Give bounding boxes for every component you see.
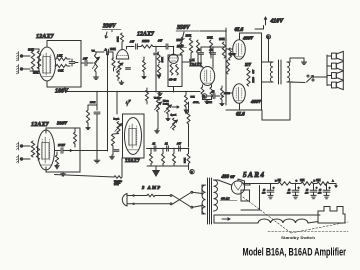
svg-text:450: 450: [305, 193, 309, 195]
svg-text:Speed: Speed: [171, 115, 177, 117]
svg-text:Vol.: Vol.: [92, 50, 96, 53]
svg-text:32V: 32V: [245, 63, 252, 67]
svg-text:6.8K: 6.8K: [58, 70, 63, 73]
svg-text:460V: 460V: [250, 99, 262, 104]
svg-text:56K: 56K: [191, 96, 195, 99]
svg-text:1MEG: 1MEG: [142, 40, 149, 43]
svg-text:100K: 100K: [186, 35, 192, 38]
svg-text:F: F: [128, 99, 132, 103]
svg-text:.5K: .5K: [277, 179, 281, 182]
svg-text:460V: 460V: [242, 36, 254, 41]
svg-text:12AX7: 12AX7: [31, 121, 49, 128]
svg-text:Foot: Foot: [163, 101, 168, 103]
svg-text:400 or: 400 or: [221, 175, 235, 180]
svg-text:1.5K: 1.5K: [57, 55, 62, 58]
svg-text:40: 40: [306, 190, 309, 192]
svg-text:100K: 100K: [207, 37, 213, 40]
svg-text:+: +: [273, 187, 275, 190]
svg-text:40: 40: [263, 190, 266, 192]
svg-text:.01: .01: [165, 143, 169, 146]
svg-text:450: 450: [287, 193, 291, 195]
svg-text:Pedal: Pedal: [163, 104, 169, 106]
svg-text:Model B16A, B16AD Amplifier: Model B16A, B16AD Amplifier: [243, 247, 347, 259]
svg-text:12AX7: 12AX7: [36, 33, 54, 40]
svg-text:10K: 10K: [316, 179, 321, 182]
svg-text:40: 40: [319, 190, 322, 192]
svg-text:450: 450: [262, 193, 266, 195]
svg-text:6L6: 6L6: [235, 27, 244, 33]
svg-text:330V: 330V: [102, 24, 117, 30]
svg-text:100K: 100K: [161, 57, 164, 63]
svg-text:40: 40: [288, 190, 291, 192]
svg-text:450: 450: [318, 193, 322, 195]
svg-text:B: B: [191, 170, 193, 174]
svg-text:OHM: OHM: [252, 77, 255, 83]
svg-text:.02: .02: [197, 49, 201, 52]
svg-text:+: +: [298, 187, 300, 190]
svg-text:.01: .01: [152, 143, 156, 146]
svg-text:Standby Switch: Standby Switch: [281, 236, 315, 240]
svg-text:.047: .047: [130, 41, 135, 44]
svg-text:10 MF: 10 MF: [58, 144, 65, 147]
svg-text:.047: .047: [177, 143, 182, 146]
svg-text:12AX7: 12AX7: [137, 32, 155, 38]
svg-text:200: 200: [252, 70, 255, 74]
svg-text:5AR4: 5AR4: [243, 171, 265, 179]
svg-text:380V: 380V: [56, 121, 68, 126]
svg-text:+: +: [329, 187, 331, 190]
svg-text:A: A: [332, 179, 334, 182]
svg-text:+: +: [316, 187, 318, 190]
svg-text:250K: 250K: [90, 101, 96, 104]
svg-text:SLO-BLO: SLO-BLO: [114, 181, 123, 183]
svg-text:100K: 100K: [117, 36, 120, 42]
svg-text:10K: 10K: [300, 179, 305, 182]
svg-text:12AX7: 12AX7: [125, 158, 140, 164]
svg-text:C: C: [296, 179, 298, 182]
svg-text:410V: 410V: [270, 19, 285, 25]
svg-text:250K: 250K: [177, 39, 183, 42]
svg-text:D: D: [275, 179, 277, 182]
svg-text:470K: 470K: [193, 101, 199, 104]
svg-text:Depth: Depth: [114, 118, 120, 120]
svg-text:100K: 100K: [219, 38, 225, 41]
svg-text:350V: 350V: [176, 25, 191, 31]
svg-text:3 AMP: 3 AMP: [141, 185, 161, 190]
svg-text:44=45: 44=45: [169, 79, 177, 82]
svg-text:100K: 100K: [33, 72, 39, 75]
svg-text:400 AC: 400 AC: [221, 198, 230, 201]
svg-text:220K: 220K: [110, 48, 116, 51]
svg-text:.047: .047: [158, 40, 163, 43]
svg-text:300K: 300K: [185, 158, 187, 163]
svg-text:6L6: 6L6: [236, 112, 245, 118]
